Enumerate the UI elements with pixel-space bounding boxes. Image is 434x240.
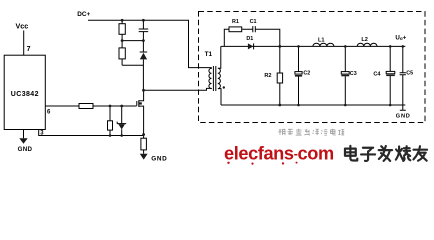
svg-text:L1: L1	[318, 38, 325, 44]
svg-text:C4: C4	[373, 71, 381, 77]
svg-text:Uo+: Uo+	[395, 34, 406, 41]
svg-text:C2: C2	[303, 71, 310, 77]
svg-text:GND: GND	[151, 156, 167, 163]
svg-text:Vcc: Vcc	[16, 21, 29, 30]
svg-text:7: 7	[27, 46, 31, 53]
svg-text:T1: T1	[205, 51, 213, 58]
svg-text:D1: D1	[246, 36, 253, 42]
svg-text:GND: GND	[396, 114, 411, 120]
svg-text:6: 6	[47, 109, 51, 115]
svg-text:GND: GND	[18, 146, 33, 153]
svg-text:L2: L2	[361, 37, 368, 43]
svg-text:DC+: DC+	[77, 11, 90, 18]
svg-text:R1: R1	[232, 19, 239, 25]
svg-text:elecfans-com: elecfans-com	[224, 143, 334, 163]
svg-text:UC3842: UC3842	[11, 91, 39, 98]
svg-text:C5: C5	[406, 71, 413, 77]
svg-text:R2: R2	[264, 73, 271, 79]
svg-text:C1: C1	[250, 19, 257, 25]
svg-text:C3: C3	[350, 71, 357, 77]
